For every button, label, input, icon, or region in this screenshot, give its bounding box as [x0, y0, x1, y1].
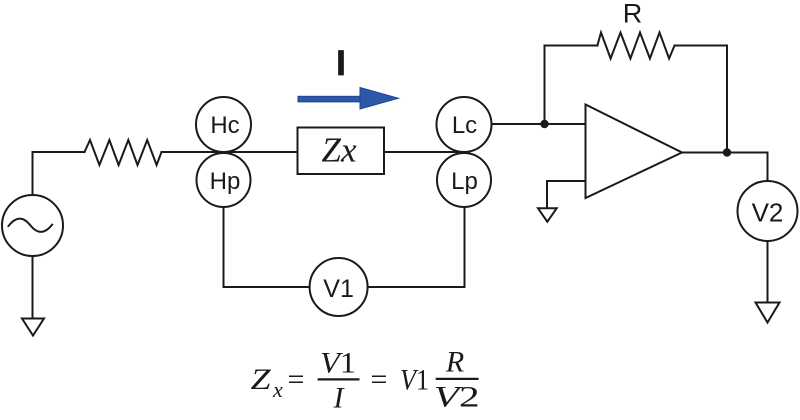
svg-text:=: = [371, 363, 388, 396]
op-amp U1 [586, 105, 683, 199]
formula Zx = V1/I = V1 R/V2 [251, 345, 480, 414]
svg-text:Lc: Lc [452, 112, 477, 139]
svg-text:V1: V1 [323, 275, 354, 303]
svg-text:Zx: Zx [322, 131, 357, 170]
svg-text:Z: Z [251, 363, 271, 396]
wire op-amp output [682, 153, 768, 182]
svg-text:V1: V1 [400, 364, 429, 397]
wire feedback top left [545, 45, 598, 47]
wire feedback right vertical [726, 46, 728, 153]
wire op-amp non-inverting input [547, 181, 586, 209]
svg-text:V1: V1 [320, 346, 356, 379]
svg-text:V2: V2 [752, 198, 784, 228]
fraction bar R/V2 [436, 378, 479, 380]
current arrow I [298, 88, 399, 110]
AC source sine symbol [8, 219, 52, 232]
svg-text:=: = [288, 363, 305, 396]
AC source VS [2, 195, 63, 256]
impedance Zx [298, 128, 385, 175]
voltmeter V2 [738, 181, 798, 241]
wire feedback left vertical [544, 46, 546, 125]
wire Hp to V1 [224, 207, 310, 287]
voltmeter V1 [310, 258, 368, 316]
junction node (inverting input) [540, 120, 548, 128]
wire V1 to Lp [368, 207, 465, 287]
fraction bar V1/I [318, 378, 360, 380]
wire source top to rail [33, 152, 85, 195]
ground (V2) [756, 303, 780, 323]
svg-text:x: x [272, 377, 283, 402]
svg-text:Hp: Hp [210, 168, 241, 195]
resistor (source series) [85, 140, 162, 165]
resistor R feedback [597, 33, 674, 59]
svg-text:R: R [445, 345, 464, 378]
svg-text:I: I [336, 44, 346, 83]
svg-text:V2: V2 [434, 381, 480, 414]
wire feedback top right [675, 45, 728, 47]
ground (op-amp) [538, 208, 557, 221]
port Lp [437, 153, 491, 207]
wire V2 to ground [767, 241, 769, 303]
svg-text:Hc: Hc [210, 112, 239, 139]
wire Lc to op-amp inverting input [492, 123, 586, 125]
wire Zx to Lc/Lp tangent [384, 151, 464, 153]
port Hp [197, 153, 251, 207]
svg-text:R: R [623, 0, 643, 29]
wire source bottom to ground [32, 256, 34, 319]
svg-text:Lp: Lp [451, 168, 478, 195]
junction node (output) [723, 148, 731, 156]
ground (source) [22, 319, 44, 336]
port Hc [196, 97, 251, 152]
wire resistor to Zx through Hc/Hp tangent [162, 151, 298, 153]
port Lc [437, 97, 492, 152]
